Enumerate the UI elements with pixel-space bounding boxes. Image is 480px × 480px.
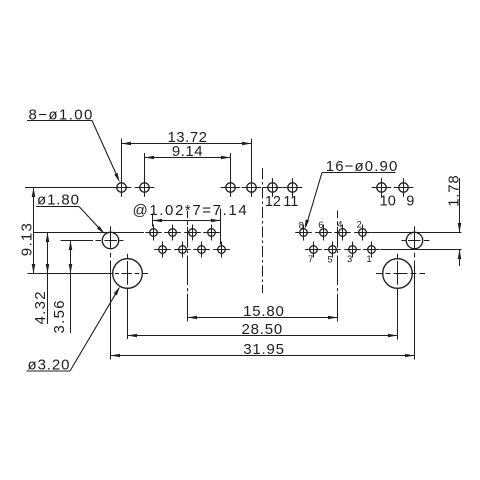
pin number 1 bbox=[366, 254, 371, 265]
hole label 9 bbox=[406, 194, 414, 210]
dimension pitch 1.02*7=7.14 bbox=[133, 202, 249, 244]
pin number 5 bbox=[327, 255, 332, 266]
dimension 13.72 bbox=[122, 129, 252, 180]
dimension 4.32 bbox=[32, 233, 49, 325]
dimension 15.80 bbox=[188, 303, 338, 320]
pin hole 4 dia0.90 bbox=[334, 225, 351, 241]
svg-text:9.14: 9.14 bbox=[172, 143, 203, 160]
dimension 3.56 bbox=[51, 241, 93, 334]
dimension 9.13 bbox=[18, 188, 35, 274]
upper pin row extension right bbox=[371, 232, 462, 234]
mount hole A3 dia1.00 bbox=[221, 178, 241, 197]
mount hole hole 11 dia1.00 bbox=[283, 178, 303, 197]
pin number 6 bbox=[318, 220, 323, 231]
dimension 1.78 bbox=[445, 174, 462, 266]
svg-text:2: 2 bbox=[356, 220, 361, 231]
dimension 31.95 bbox=[111, 341, 415, 358]
pin hole 6 dia0.90 bbox=[315, 225, 332, 241]
svg-text:28.50: 28.50 bbox=[242, 321, 284, 338]
pin hole 8 dia0.90 bbox=[295, 225, 312, 241]
mount hole hole 9 dia1.00 bbox=[394, 178, 414, 197]
svg-text:9: 9 bbox=[406, 194, 414, 210]
pin hole dia0.90 left lower bbox=[154, 242, 171, 258]
hole label 12 bbox=[265, 194, 281, 210]
label dia1.80 with leader bbox=[36, 192, 105, 235]
pin hole dia0.90 left upper bbox=[145, 225, 162, 241]
hole label 10 bbox=[380, 194, 396, 210]
lower pin row extension right bbox=[381, 249, 462, 251]
svg-text:6: 6 bbox=[318, 220, 323, 231]
mount hole A1 dia1.00 bbox=[112, 178, 132, 197]
pin number 7 bbox=[308, 254, 313, 265]
pin hole dia0.90 left upper bbox=[203, 225, 220, 241]
svg-text:7: 7 bbox=[308, 254, 313, 265]
svg-text:15.80: 15.80 bbox=[243, 303, 285, 320]
svg-text:@1.02*7=7.14: @1.02*7=7.14 bbox=[133, 202, 249, 219]
mount hole A4 dia1.00 bbox=[242, 178, 262, 197]
svg-text:12: 12 bbox=[265, 194, 281, 210]
hole dia3.20 right bbox=[376, 254, 425, 340]
pin hole 2 dia0.90 bbox=[354, 225, 371, 241]
left port centerline bbox=[187, 211, 189, 322]
hole label 11 bbox=[283, 194, 298, 210]
right port centerline bbox=[337, 211, 339, 322]
pin hole dia0.90 left upper bbox=[184, 225, 201, 241]
pin number 3 bbox=[347, 254, 352, 265]
svg-text:3: 3 bbox=[347, 254, 352, 265]
dimension 9.14 bbox=[145, 143, 231, 180]
svg-text:1: 1 bbox=[366, 254, 371, 265]
svg-text:5: 5 bbox=[327, 255, 332, 266]
svg-text:11: 11 bbox=[283, 194, 298, 210]
pin hole dia0.90 left lower bbox=[174, 242, 191, 258]
mount hole A2 dia1.00 bbox=[135, 178, 155, 197]
svg-text:3.56: 3.56 bbox=[51, 299, 68, 333]
svg-text:9.13: 9.13 bbox=[18, 222, 35, 256]
pin hole dia0.90 left lower bbox=[193, 242, 210, 258]
svg-text:31.95: 31.95 bbox=[243, 341, 285, 358]
pin hole dia0.90 left upper bbox=[164, 225, 181, 241]
dimension 28.50 bbox=[128, 321, 398, 338]
extension line top row bbox=[25, 187, 112, 189]
svg-text:4.32: 4.32 bbox=[32, 290, 49, 324]
label 8-dia1.00 with leader bbox=[27, 106, 120, 182]
pin hole 5 dia0.90 bbox=[324, 242, 341, 258]
mount hole hole 12 dia1.00 bbox=[263, 178, 283, 197]
hole dia1.80 left bbox=[96, 226, 124, 359]
svg-text:8: 8 bbox=[299, 221, 304, 232]
svg-text:4: 4 bbox=[337, 220, 342, 231]
pin number 2 bbox=[356, 220, 361, 231]
pin hole 1 dia0.90 bbox=[363, 242, 380, 258]
svg-text:1.78: 1.78 bbox=[445, 174, 462, 206]
hole dia3.20 left bbox=[28, 254, 149, 339]
label dia3.20 with leader bbox=[27, 286, 121, 373]
mount hole hole 10 dia1.00 bbox=[372, 178, 392, 197]
pin number 8 bbox=[299, 221, 304, 232]
pin hole 3 dia0.90 bbox=[344, 242, 361, 258]
hole dia1.80 right bbox=[402, 226, 430, 359]
upper pin row extension left bbox=[34, 232, 144, 234]
main vertical centerline bbox=[262, 168, 264, 293]
label 16-dia0.90 with leader bbox=[305, 158, 399, 229]
pin number 4 bbox=[337, 220, 342, 231]
pin hole 7 dia0.90 bbox=[305, 242, 322, 258]
pin hole dia0.90 left lower bbox=[213, 242, 230, 258]
svg-text:10: 10 bbox=[380, 194, 396, 210]
